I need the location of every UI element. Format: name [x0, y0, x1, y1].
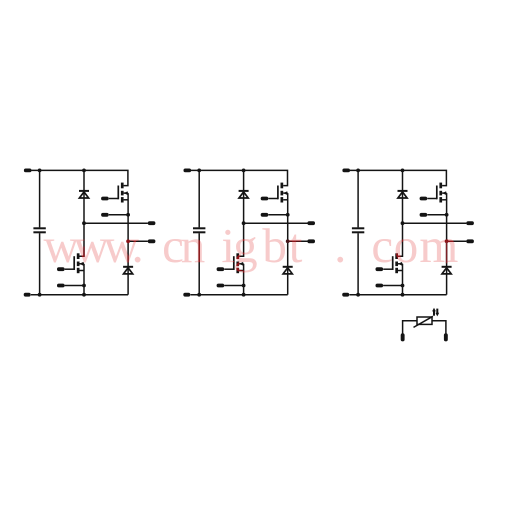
wire: upper source/body vertical leg3: [446, 193, 448, 295]
svg-text:.: .: [132, 218, 144, 273]
wire: output mid line 1 leg2: [244, 222, 308, 224]
node: upper source junction leg2: [286, 213, 290, 217]
terminal lower source sense leg1: [57, 284, 65, 288]
svg-text:n: n: [181, 218, 206, 273]
node: upper source junction leg1: [126, 213, 130, 217]
thermistor RT (NTC): [414, 308, 440, 328]
wire: output mid line 2 leg2: [288, 240, 308, 242]
node: bottom rail / mosfet branch leg3: [401, 293, 405, 297]
terminal thermistor right: [444, 333, 448, 341]
diode D5 (upper freewheel): [398, 190, 408, 192]
node: mid junction leg1: [82, 221, 86, 225]
wire: upper source sense lead leg2: [268, 214, 287, 216]
terminal lower source sense leg2: [217, 284, 225, 288]
svg-text:c: c: [371, 218, 393, 273]
terminal upper source sense leg2: [261, 213, 269, 217]
node: lower source junction leg3: [401, 284, 405, 288]
wire: thermistor right lead: [432, 321, 446, 334]
wire: lower source/body vertical leg3: [402, 264, 404, 295]
diode D1 (upper freewheel): [79, 190, 89, 192]
wire: top rail + upper drain drop leg2: [191, 170, 288, 185]
svg-text:t: t: [289, 218, 303, 273]
terminal output 1 leg2: [307, 221, 315, 225]
node: bottom rail / capacitor branch leg2: [197, 293, 201, 297]
wire: capacitor branch upper leg3: [357, 170, 359, 227]
terminal DC- leg3: [342, 293, 349, 297]
MOSFET Q3 (upper): [268, 183, 287, 203]
wire: lower source sense lead leg2: [224, 285, 243, 287]
diode D3 (upper freewheel): [239, 190, 249, 192]
wire: top rail + upper drain drop leg1: [31, 170, 128, 185]
wire: bottom rail leg3: [349, 294, 446, 296]
node: output junction leg1: [126, 239, 130, 243]
wire: lower source/body vertical leg2: [243, 264, 245, 295]
node: bottom rail / mosfet branch leg2: [242, 293, 246, 297]
node: output junction leg3: [445, 239, 449, 243]
wire: upper source sense lead leg1: [109, 214, 128, 216]
wire: upper diode branch leg2: [243, 170, 245, 223]
terminal DC+ leg3: [342, 169, 350, 173]
node: lower source junction leg2: [242, 284, 246, 288]
wire: lower drain drop leg3: [398, 223, 403, 256]
svg-text:o: o: [394, 218, 419, 273]
terminal lower gate leg2: [217, 267, 225, 271]
wire: upper diode branch leg3: [402, 170, 404, 223]
terminal DC- leg1: [24, 293, 31, 297]
wire: upper diode branch leg1: [83, 170, 85, 223]
wire: upper source/body vertical leg2: [287, 193, 289, 295]
node: lower source junction leg1: [82, 284, 86, 288]
terminal output 2 leg1: [148, 239, 156, 243]
terminal upper gate leg1: [101, 197, 109, 201]
node: top rail / capacitor branch leg2: [197, 169, 201, 173]
MOSFET Q6 (lower): [383, 253, 402, 273]
wire: lower source sense lead leg3: [383, 285, 402, 287]
node: output junction leg2: [286, 239, 290, 243]
wire: capacitor branch lower leg1: [39, 233, 41, 295]
terminal DC+ leg2: [184, 169, 192, 173]
diode D6 (lower freewheel): [442, 266, 452, 268]
capacitor C2: [193, 227, 205, 229]
wire: output mid line 1 leg3: [403, 222, 467, 224]
wire: output mid line 2 leg3: [447, 240, 467, 242]
wire: output mid line 1 leg1: [84, 222, 148, 224]
wire: red-tinted segment on lower drain drop leg1: [83, 247, 85, 256]
diode D2 (lower freewheel): [123, 266, 133, 268]
node: mid junction leg2: [242, 221, 246, 225]
wire: capacitor branch upper leg1: [39, 170, 41, 227]
svg-text:b: b: [262, 218, 287, 273]
wire: red-tinted segment below output junction leg3: [446, 241, 448, 263]
terminal upper gate leg3: [420, 197, 428, 201]
node: top rail / capacitor branch leg3: [356, 169, 360, 173]
diode D4 (lower freewheel): [283, 266, 293, 268]
terminal lower source sense leg3: [376, 284, 384, 288]
wire: upper source sense lead leg3: [427, 214, 446, 216]
wire: lower source/body vertical leg1: [83, 264, 85, 295]
wire: lower drain drop leg2: [239, 223, 244, 256]
node: top rail / diode branch leg1: [82, 169, 86, 173]
terminal upper gate leg2: [261, 197, 269, 201]
MOSFET Q2 (lower): [65, 253, 84, 273]
terminal output 2 leg3: [466, 239, 474, 243]
wire: capacitor branch lower leg3: [357, 233, 359, 295]
terminal output 1 leg1: [148, 221, 156, 225]
node: bottom rail / capacitor branch leg1: [38, 293, 42, 297]
terminal lower gate leg1: [57, 267, 65, 271]
node: mid junction leg3: [401, 221, 405, 225]
svg-text:m: m: [419, 218, 458, 273]
terminal thermistor left: [401, 333, 405, 341]
terminal output 2 leg2: [307, 239, 315, 243]
MOSFET Q1 (upper): [109, 183, 128, 203]
wire: output mid line 2 leg1: [128, 240, 148, 242]
svg-text:g: g: [233, 218, 258, 273]
node: top rail / capacitor branch leg1: [38, 169, 42, 173]
wire: capacitor branch lower leg2: [198, 233, 200, 295]
wire: capacitor branch upper leg2: [198, 170, 200, 227]
terminal upper source sense leg1: [101, 213, 109, 217]
wire: upper source/body vertical leg1: [127, 193, 129, 295]
terminal DC+ leg1: [24, 169, 32, 173]
svg-text:.: .: [334, 218, 346, 273]
wire: top rail + upper drain drop leg3: [350, 170, 447, 185]
wire: lower source sense lead leg1: [65, 285, 84, 287]
wire: bottom rail leg2: [191, 294, 288, 296]
node: upper source junction leg3: [445, 213, 449, 217]
MOSFET Q4 (lower): [224, 253, 243, 273]
wire: bottom rail leg1: [31, 294, 128, 296]
node: bottom rail / capacitor branch leg3: [356, 293, 360, 297]
capacitor C1: [33, 227, 45, 229]
node: top rail / diode branch leg3: [401, 169, 405, 173]
terminal upper source sense leg3: [420, 213, 428, 217]
terminal DC- leg2: [183, 293, 190, 297]
node: top rail / diode branch leg2: [242, 169, 246, 173]
wire: thermistor left lead: [403, 321, 418, 334]
wire: lower drain drop leg1: [80, 223, 85, 256]
capacitor C3: [352, 227, 364, 229]
terminal lower gate leg3: [376, 267, 384, 271]
terminal output 1 leg3: [466, 221, 474, 225]
node: bottom rail / mosfet branch leg1: [82, 293, 86, 297]
MOSFET Q5 (upper): [427, 183, 446, 203]
